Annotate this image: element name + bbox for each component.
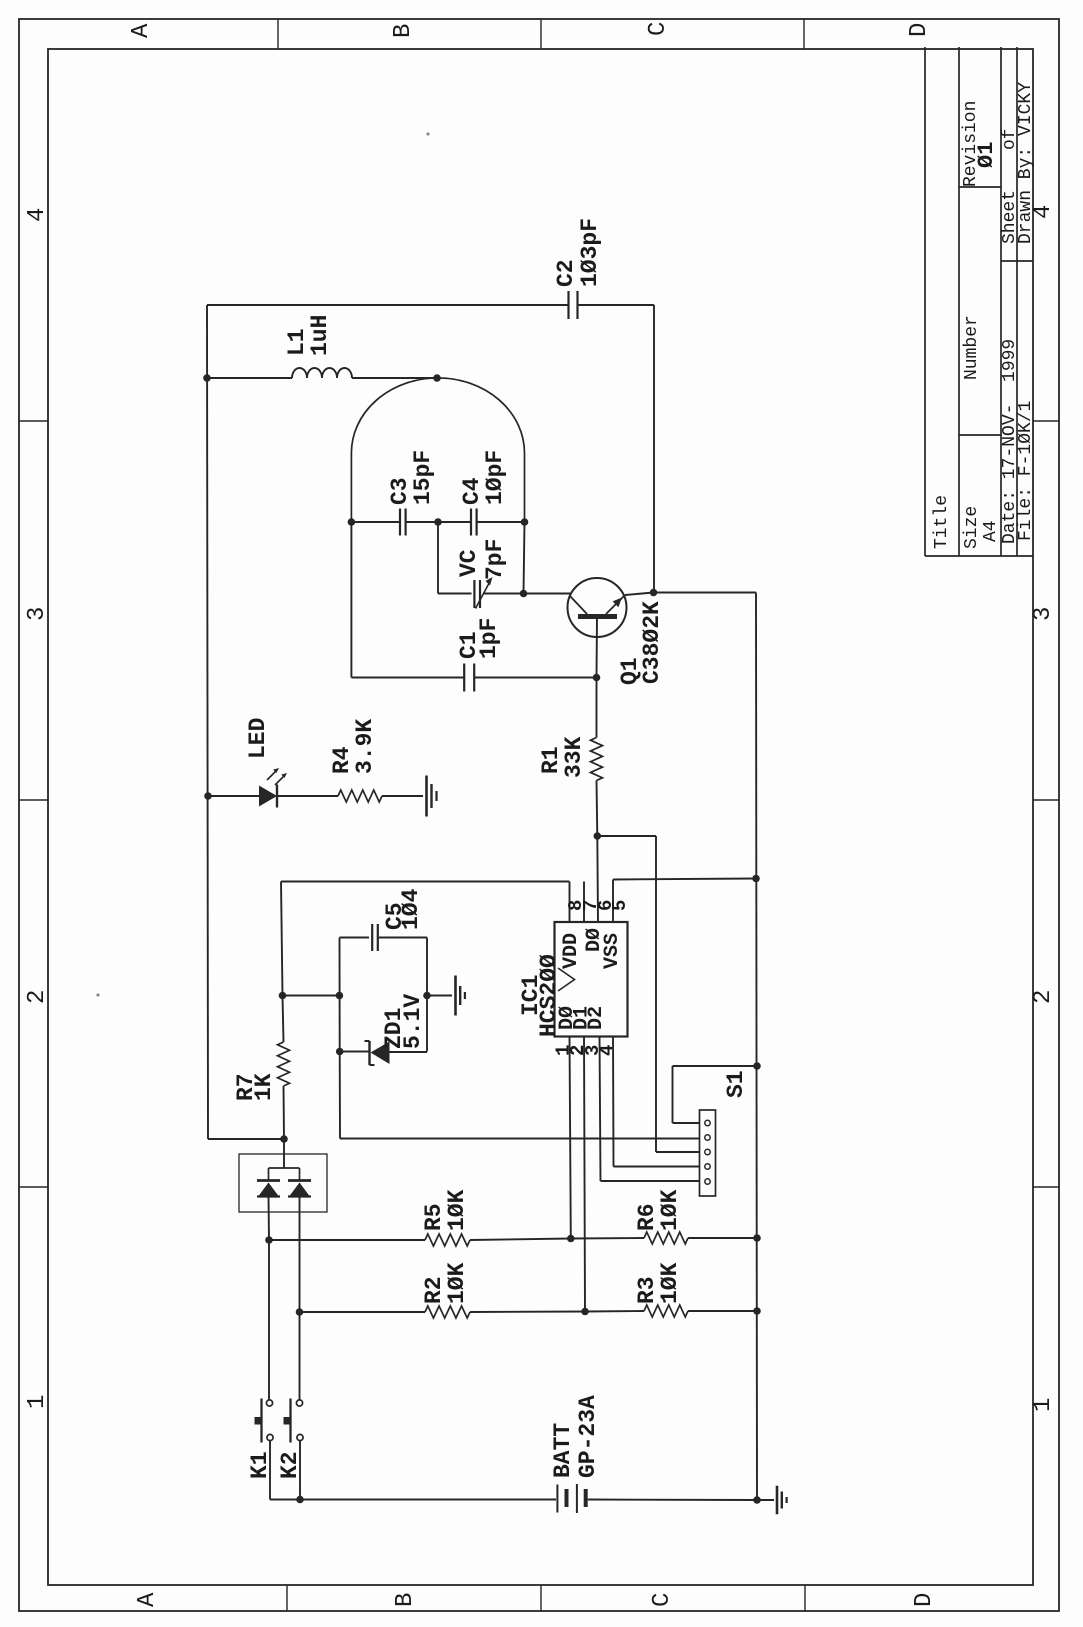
diode D-right xyxy=(299,1168,301,1181)
node pin1 row xyxy=(567,1235,575,1243)
svg-text:4: 4 xyxy=(24,208,51,222)
svg-text:VC: VC xyxy=(456,549,482,577)
wire pin5 to right rail xyxy=(613,879,756,880)
node R6 rail junction xyxy=(753,1234,761,1242)
resistor R1 xyxy=(591,738,603,781)
wire emitter node to right rail xyxy=(654,592,757,594)
wire mid rail right segment to ground xyxy=(427,995,452,997)
wire VC row left xyxy=(438,593,472,595)
svg-text:D: D xyxy=(911,1593,938,1607)
svg-text:VDD: VDD xyxy=(560,933,583,969)
wire base node down to R1 xyxy=(596,678,598,738)
wire C5/ZD1 right vertical xyxy=(426,938,428,1052)
wire tank row seg3 xyxy=(478,521,525,523)
connector S1 body xyxy=(700,1110,716,1196)
svg-text:File: F-1ØK/1: File: F-1ØK/1 xyxy=(1016,401,1036,541)
svg-text:1uH: 1uH xyxy=(307,315,333,356)
wire bottom rail left xyxy=(270,1499,556,1501)
wire IC pin3 to S1 pin5 xyxy=(601,1180,700,1182)
wire S1 pin1 left xyxy=(673,1122,700,1124)
svg-text:S1: S1 xyxy=(723,1070,749,1098)
wire IC pin4 to S1 pin4 xyxy=(614,1166,700,1168)
wire VDD rail horizontal xyxy=(281,881,570,883)
wire LED to R4 xyxy=(277,795,338,797)
wire IC pin5 lead xyxy=(612,880,614,923)
svg-text:C38Ø2K: C38Ø2K xyxy=(639,601,665,684)
svg-text:1ØpF: 1ØpF xyxy=(482,450,508,505)
wire inductor to antenna arc apex xyxy=(352,377,437,379)
capacitor C4 xyxy=(470,509,472,536)
ground at battery xyxy=(776,1486,779,1515)
zone tick marks right edge xyxy=(1033,420,1059,422)
svg-text:3: 3 xyxy=(1030,607,1057,621)
wire D-left down xyxy=(268,1197,271,1241)
svg-text:Size: Size xyxy=(962,506,982,549)
wire IC pin4 down xyxy=(612,1037,615,1167)
svg-text:B: B xyxy=(390,24,417,38)
svg-text:Ø1: Ø1 xyxy=(974,142,999,168)
node LED junction on left rail xyxy=(204,792,212,800)
wire R4 to ground xyxy=(382,795,423,797)
node C5/ZD1 left mid xyxy=(336,992,344,1000)
wire bottom rail right xyxy=(588,1499,757,1502)
wire C1 row left xyxy=(351,677,463,679)
wire R1 to node xyxy=(596,781,599,837)
ground at R4 xyxy=(425,776,428,817)
wire S1 pin1 up xyxy=(672,1066,674,1123)
wire VC node to transistor collector xyxy=(524,593,571,595)
svg-text:2: 2 xyxy=(24,990,51,1004)
svg-text:1ØK: 1ØK xyxy=(444,1189,470,1231)
svg-text:2: 2 xyxy=(1030,990,1057,1004)
wire tank right down to VC row xyxy=(524,522,525,594)
inductor L1 xyxy=(292,368,352,378)
wire ZD1 row left xyxy=(340,1051,369,1053)
node tank row mid xyxy=(434,518,442,526)
LED diode xyxy=(259,786,277,807)
svg-text:1Ø3pF: 1Ø3pF xyxy=(577,218,603,287)
wire IC pin1 down to R5/R6 node xyxy=(570,1037,571,1239)
node battery rail junction xyxy=(753,1496,761,1504)
node R2 row left xyxy=(296,1308,304,1316)
svg-text:33K: 33K xyxy=(561,736,587,778)
node ZD1 left xyxy=(336,1048,344,1056)
node VDD / R7 top xyxy=(279,992,287,1000)
svg-text:A: A xyxy=(128,23,155,38)
wire IC pin8 lead xyxy=(569,882,571,923)
zone tick marks left edge xyxy=(19,420,48,422)
diode pack top tee xyxy=(269,1167,300,1169)
svg-text:A: A xyxy=(134,1592,161,1607)
wire node to R3 xyxy=(585,1310,644,1313)
LED arrows xyxy=(267,770,277,780)
svg-text:HCS2ØØ: HCS2ØØ xyxy=(536,954,562,1037)
wire R2 to node xyxy=(470,1311,585,1314)
wire IC pin6 lead xyxy=(596,836,599,922)
node R3 rail junction xyxy=(753,1307,761,1315)
wire right vertical from top rail to emitter node xyxy=(653,305,655,593)
switch K2 xyxy=(296,1400,302,1406)
node VC right xyxy=(520,590,528,598)
wire R5 to node xyxy=(470,1239,571,1241)
wire C5 row right xyxy=(379,937,427,939)
wire C1 row right xyxy=(475,677,597,679)
svg-text:1K: 1K xyxy=(251,1073,277,1101)
node S1 feed rail junction xyxy=(753,1062,761,1070)
wire R2 row left segment xyxy=(300,1311,426,1313)
switch K1 xyxy=(266,1400,272,1406)
svg-text:1Ø4: 1Ø4 xyxy=(398,888,424,930)
variable capacitor VC arrow xyxy=(476,581,491,609)
resistor R7 xyxy=(278,1042,290,1086)
svg-text:BATT: BATT xyxy=(550,1423,576,1478)
wire VC row right xyxy=(483,593,524,595)
title block grid lines xyxy=(924,47,926,556)
svg-text:1ØK: 1ØK xyxy=(444,1262,470,1304)
node base / C1 junction xyxy=(593,674,601,682)
wire to S1 pin3 xyxy=(656,1151,700,1153)
svg-text:1ØK: 1ØK xyxy=(657,1262,683,1304)
wire C5 left down to S1 pin2 wire corner xyxy=(339,1052,341,1139)
wire K2 bottom xyxy=(299,1441,301,1500)
zone tick marks bottom edge xyxy=(286,1585,288,1611)
wire VDD corner down xyxy=(281,882,283,996)
capacitor C5 xyxy=(371,924,373,951)
wire transistor base down xyxy=(596,617,599,678)
svg-text:VSS: VSS xyxy=(601,933,624,969)
svg-text:3: 3 xyxy=(24,607,51,621)
wire C5/ZD1 left vertical xyxy=(339,938,341,1052)
svg-text:1: 1 xyxy=(1030,1398,1057,1412)
wire left rail vertical xyxy=(207,305,208,1139)
node keys bottom junction xyxy=(296,1496,304,1504)
svg-text:A4: A4 xyxy=(981,520,1001,542)
wire C5 row left xyxy=(340,937,370,939)
svg-text:Title: Title xyxy=(932,495,952,549)
svg-text:15pF: 15pF xyxy=(410,450,436,505)
wire K1 top xyxy=(268,1240,270,1400)
wire R3 to rail xyxy=(688,1310,757,1312)
svg-text:GP-23A: GP-23A xyxy=(575,1395,601,1478)
capacitor C1 xyxy=(463,664,465,692)
antenna loop arc xyxy=(351,378,524,522)
wire tank row seg1 xyxy=(351,521,399,523)
scan speck upper xyxy=(426,132,429,135)
ground at zener xyxy=(454,976,457,1016)
svg-text:C: C xyxy=(645,22,672,36)
node diodes top xyxy=(280,1135,288,1143)
resistor R2 xyxy=(425,1306,470,1318)
connector S1 pin circles xyxy=(705,1120,710,1125)
wire tank left down to C1 row xyxy=(350,522,352,678)
wire ZD1 row right xyxy=(390,1051,428,1053)
svg-text:C: C xyxy=(649,1593,676,1607)
wire top rail right segment xyxy=(578,304,654,306)
svg-text:1pF: 1pF xyxy=(476,618,502,659)
wire to LED xyxy=(208,795,259,797)
resistor R5 xyxy=(425,1234,470,1246)
node L1 left junction xyxy=(203,374,211,382)
svg-text:7pF: 7pF xyxy=(482,539,508,580)
node emitter junction xyxy=(650,589,658,597)
svg-text:D: D xyxy=(906,23,933,37)
capacitor C2 xyxy=(567,291,569,319)
svg-text:Drawn By: VICKY: Drawn By: VICKY xyxy=(1016,82,1036,244)
svg-text:5: 5 xyxy=(609,900,631,911)
wire emitter to node xyxy=(625,593,654,596)
transistor Q1 xyxy=(568,578,627,637)
svg-text:Number: Number xyxy=(962,315,982,380)
scan speck left xyxy=(96,993,99,996)
wire left rail bottom corner to diode node xyxy=(208,1138,284,1140)
wire S1 pin1 to right rail xyxy=(673,1065,758,1067)
wire top rail left segment xyxy=(207,304,568,306)
wire R5 row left segment xyxy=(269,1239,425,1241)
wire to inductor L1 xyxy=(207,377,292,379)
wire node to R6 xyxy=(571,1237,644,1240)
wire IC pin3 down xyxy=(600,1037,601,1182)
wire mid node down to VC row xyxy=(437,522,439,594)
zener diode ZD1 xyxy=(368,1041,370,1065)
wire R7 bottom xyxy=(283,1086,286,1139)
svg-text:LED: LED xyxy=(245,718,271,759)
IC IC1 HCS200 body xyxy=(555,922,628,1037)
node pin2 row xyxy=(581,1308,589,1316)
variable capacitor VC xyxy=(473,580,475,608)
wire right rail vertical xyxy=(756,593,757,1501)
node R5 row left xyxy=(265,1236,273,1244)
resistor R6 xyxy=(644,1232,688,1244)
wire K1 bottom xyxy=(269,1441,271,1500)
wire D-right down xyxy=(299,1197,301,1313)
node R1 bottom xyxy=(594,832,602,840)
wire R7 top xyxy=(283,996,284,1043)
wire IC pin2 down to R2/R3 node xyxy=(584,1037,585,1312)
svg-text:1ØK: 1ØK xyxy=(657,1189,683,1231)
diode D-left xyxy=(268,1168,270,1181)
capacitor C3 xyxy=(399,509,401,536)
node antenna arc apex xyxy=(433,374,441,382)
node C5/ZD1 right mid xyxy=(423,992,431,1000)
wire into diode pack xyxy=(283,1139,285,1168)
wire K2 top xyxy=(299,1312,301,1400)
svg-text:5.1V: 5.1V xyxy=(400,994,426,1049)
resistor R4 xyxy=(338,790,382,802)
wire R6 to rail xyxy=(688,1237,757,1239)
wire VDD mid rail xyxy=(283,995,340,997)
diode pack box xyxy=(239,1154,327,1212)
resistor R3 xyxy=(644,1305,688,1317)
svg-text:3.9K: 3.9K xyxy=(352,719,378,774)
wire IC pin7 lead xyxy=(583,882,585,923)
IC clock wedge symbol xyxy=(558,968,575,991)
wire R1 node corner right xyxy=(597,835,656,837)
wire tank row seg2 xyxy=(407,521,471,523)
node pin5 rail junction xyxy=(752,875,760,883)
battery BATT xyxy=(556,1485,558,1513)
svg-text:D2: D2 xyxy=(585,1006,608,1030)
wire S1 pin2 long wire xyxy=(340,1138,700,1140)
svg-text:B: B xyxy=(392,1593,419,1607)
node tank row left xyxy=(348,518,356,526)
node tank row right xyxy=(521,518,529,526)
wire to ground bottom right xyxy=(757,1499,774,1501)
zone tick marks top edge xyxy=(277,19,279,49)
svg-text:1: 1 xyxy=(24,1395,51,1409)
wire vertical to S1 pin3 row xyxy=(655,836,657,1152)
svg-text:C2: C2 xyxy=(553,259,579,287)
